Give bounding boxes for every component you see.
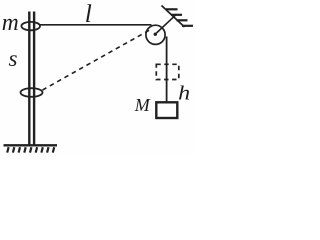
wall anchor line bbox=[162, 6, 185, 28]
svg-text:m: m bbox=[2, 10, 19, 36]
cord l (horizontal, collar to pulley) bbox=[40, 24, 152, 26]
pulley bbox=[146, 25, 165, 44]
string (pulley to mass M) bbox=[166, 37, 168, 102]
svg-text:s: s bbox=[9, 46, 18, 71]
collar ring lower (second position) bbox=[21, 88, 43, 97]
collar ring m (upper) bbox=[21, 22, 40, 30]
svg-text:l: l bbox=[85, 0, 92, 28]
dashed cord (second position, collar to pulley) bbox=[43, 30, 150, 90]
dashed box (initial position of M) bbox=[156, 64, 179, 79]
pulley support link bbox=[157, 14, 177, 33]
pulley axle dot bbox=[154, 33, 157, 36]
svg-text:h: h bbox=[178, 82, 190, 104]
pole (vertical rod, double line) bbox=[29, 12, 34, 146]
ground line bbox=[4, 144, 58, 146]
ground hatching bbox=[7, 147, 54, 152]
svg-text:M: M bbox=[134, 95, 151, 115]
wall hatching bbox=[166, 9, 193, 26]
mass M box bbox=[156, 102, 177, 118]
